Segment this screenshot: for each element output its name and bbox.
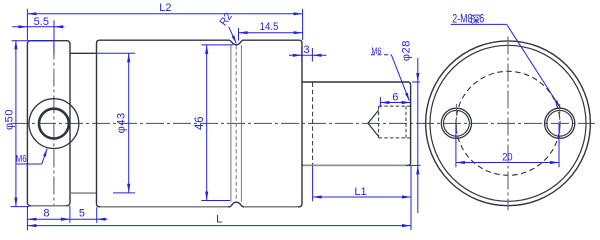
svg-text:14.5: 14.5 <box>260 21 279 33</box>
dimension 5.5 <box>12 16 64 53</box>
svg-text:5.5: 5.5 <box>34 16 49 28</box>
leader M6 (end tapped hole) <box>371 46 409 101</box>
svg-text:L2: L2 <box>159 2 171 14</box>
dimension L2 <box>27 2 302 40</box>
dimension φ50 <box>3 40 54 206</box>
leader M6 (flange radial hole) <box>16 149 47 164</box>
dimension 20 <box>456 123 559 167</box>
groove hidden center line <box>235 45 237 202</box>
svg-text:46: 46 <box>194 116 206 130</box>
leader R2 <box>218 11 236 43</box>
end view vertical center line <box>507 37 509 211</box>
end hole bottom hidden line <box>405 106 407 138</box>
dimension 14.5 <box>239 21 303 40</box>
dimension 3 <box>289 44 327 62</box>
neck top edge <box>70 52 97 54</box>
dimension φ28 <box>401 40 421 213</box>
svg-text:20: 20 <box>502 152 513 164</box>
svg-text:6: 6 <box>479 12 484 26</box>
end hole major dia top hidden line <box>379 105 411 107</box>
svg-text:φ43: φ43 <box>116 112 128 133</box>
end hole major dia bottom hidden line <box>379 137 411 139</box>
shaft outline <box>302 82 411 165</box>
dimension 8 <box>27 206 70 231</box>
svg-text:L1: L1 <box>354 186 366 198</box>
M8 hole left inner circle <box>444 110 470 136</box>
svg-text:8: 8 <box>43 207 49 219</box>
bolt circle (dashed) <box>456 71 560 175</box>
svg-text:φ50: φ50 <box>3 109 15 130</box>
groove left wall <box>230 45 232 202</box>
flange outline <box>27 41 70 206</box>
dimension 5 <box>61 207 108 223</box>
dimension φ43 <box>97 53 136 193</box>
svg-text:M6: M6 <box>16 153 27 164</box>
M8 hole right outer circle <box>545 108 575 138</box>
M8 hole right center tick <box>559 104 561 143</box>
M8 hole left center tick <box>455 104 457 143</box>
flange bottom edge shading <box>31 205 66 207</box>
dimension 6 <box>380 92 410 108</box>
drill cone <box>368 110 379 136</box>
end hole thread start hidden line <box>378 106 380 138</box>
flange tapped hole outer circle <box>29 99 79 149</box>
label 2-M8 depth 6 with leader <box>451 12 561 107</box>
dimension L <box>27 166 411 230</box>
groove right wall <box>240 45 242 202</box>
svg-text:2-M8: 2-M8 <box>452 12 472 26</box>
flange tapped hole inner circle <box>39 109 69 139</box>
dimension 46 <box>194 45 233 201</box>
body bottom edge shading <box>100 206 298 208</box>
flange hole vertical center line <box>53 42 55 206</box>
horizontal center line (main axis) <box>11 122 595 124</box>
dimension L1 <box>313 166 411 201</box>
M8 hole right inner circle <box>547 110 573 136</box>
end view chamfer circle <box>430 45 586 201</box>
neck bottom edge <box>70 192 97 194</box>
M8 hole left outer circle <box>441 108 471 138</box>
shaft bottom edge shading <box>303 164 407 166</box>
svg-text:L: L <box>216 214 222 226</box>
svg-text:3: 3 <box>303 44 309 56</box>
svg-text:φ28: φ28 <box>401 40 413 61</box>
end view outer circle <box>426 41 591 206</box>
shaft hidden line (relief) <box>312 83 314 166</box>
main body outline with ring groove notches <box>97 40 303 207</box>
svg-text:6: 6 <box>392 92 398 104</box>
svg-text:5: 5 <box>79 207 85 219</box>
